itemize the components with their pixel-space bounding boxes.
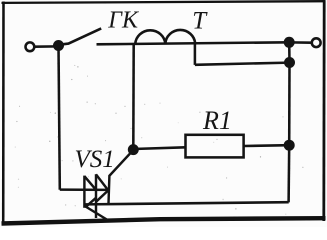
switch GK blade: [59, 28, 102, 44]
border frame bottom: [2, 218, 326, 223]
wire right vertical to bottom: [287, 145, 290, 202]
wire left horizontal into thyristor: [60, 188, 110, 191]
VS1 diagonal lower left: [85, 198, 96, 208]
thyristor VS1: [84, 174, 109, 220]
VS1 diagonal upper left: [84, 176, 96, 190]
wire bottom horizontal: [85, 202, 289, 204]
border frame left: [2, 2, 5, 226]
resistor R1 body: [186, 135, 244, 158]
VS1 left bar: [83, 176, 85, 208]
VS1 diagonal lower right: [96, 190, 109, 202]
node right of R1: [284, 140, 295, 151]
wire terminal to switch pivot: [35, 45, 58, 48]
wire secondary horizontal to right node: [195, 63, 290, 65]
svg-text:R1: R1: [202, 106, 232, 135]
svg-text:VS1: VS1: [75, 146, 115, 173]
svg-text:T: T: [192, 8, 208, 35]
terminal circle left: [26, 42, 35, 51]
wire left vertical from switch pivot: [59, 46, 60, 190]
VS1 diagonal upper right: [96, 174, 107, 189]
svg-text:ГК: ГК: [107, 7, 140, 33]
node left of R1: [128, 144, 139, 155]
node top right dot: [284, 37, 295, 48]
wire node to resistor: [133, 147, 185, 149]
wire right vertical down to R1 node: [288, 63, 291, 146]
node: switch pivot dot: [53, 40, 64, 51]
VS1 middle bar: [95, 174, 97, 218]
transformer T winding hump 1: [135, 30, 165, 44]
gate wire from node to VS1: [109, 150, 134, 204]
VS1 long lower diagonal: [86, 207, 108, 221]
node second right dot: [284, 57, 295, 68]
wire middle vertical from top wire: [132, 44, 135, 151]
wire resistor to right node: [244, 144, 290, 147]
wire coil right end drop: [194, 43, 197, 65]
border frame right: [322, 1, 325, 222]
scan speckle noise: [15, 63, 304, 214]
transformer T winding hump 2: [165, 30, 195, 44]
wire to right terminal: [289, 41, 312, 44]
wire top horizontal: [97, 42, 290, 44]
terminal circle right: [312, 38, 321, 47]
wire joining right dots: [288, 42, 291, 62]
border frame top: [2, 1, 326, 3]
